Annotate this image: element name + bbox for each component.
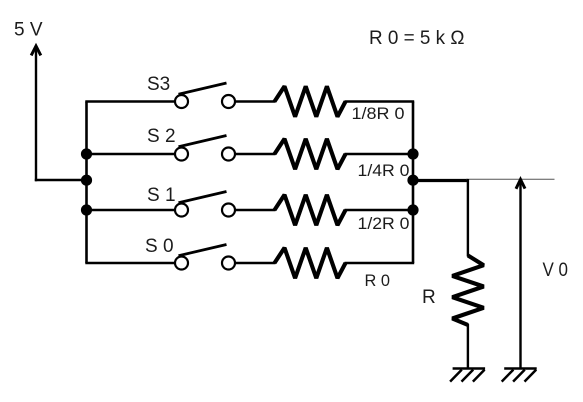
wire: left bus to switch S3 (85, 100, 175, 102)
switch S3 left contact (175, 95, 188, 108)
wire: 5V feed to left bus (35, 179, 87, 181)
wire: switch S3 to resistor (235, 100, 276, 102)
node: right bus junction feed row (407, 175, 418, 186)
wire: resistor R to ground (467, 324, 469, 368)
wire: resistor to right bus (S0 row) (345, 262, 415, 264)
ground (under R) (450, 369, 485, 382)
power arrow 5V (31, 46, 41, 181)
switch S0 right contact (222, 257, 235, 270)
switch S2 lever (179, 136, 227, 147)
svg-text:5 V: 5 V (14, 20, 43, 41)
wire: resistor to right bus (S1 row) (345, 209, 415, 211)
wire: left bus vertical (85, 102, 88, 264)
wire: left bus to switch S1 (85, 209, 175, 211)
wire: switch S1 to resistor (235, 209, 276, 211)
node: left bus junction feed row (81, 175, 92, 186)
switch S0 lever (179, 245, 227, 256)
switch S3 right contact (222, 95, 235, 108)
resistor R0 (275, 248, 346, 278)
svg-text:S 0: S 0 (145, 236, 174, 257)
svg-text:V 0: V 0 (543, 260, 569, 281)
wire: resistor to right bus (S2 row) (345, 153, 415, 155)
wire: switch S0 to resistor (235, 262, 276, 264)
ground (under V0 arrow) (502, 369, 537, 382)
V0 measurement arrow (516, 179, 525, 367)
wire: thin output line to V0 (466, 178, 554, 180)
wire: switch S2 to resistor (235, 153, 276, 155)
svg-text:1/8R 0: 1/8R 0 (352, 104, 405, 123)
svg-text:R 0: R 0 (365, 271, 391, 290)
node: left bus junction S1 row (81, 204, 92, 215)
resistor R3 (1/8 R0) (275, 86, 346, 116)
switch S2 left contact (175, 148, 188, 161)
wire: left bus to switch S0 (85, 262, 175, 264)
svg-text:1/2R 0: 1/2R 0 (358, 214, 410, 233)
node: right bus junction S1 row (407, 204, 418, 215)
svg-text:1/4R 0: 1/4R 0 (358, 161, 410, 180)
svg-text:R 0 = 5 k Ω: R 0 = 5 k Ω (369, 28, 465, 49)
switch S3 lever (179, 83, 227, 94)
svg-text:S 1: S 1 (147, 185, 176, 206)
switch S1 lever (179, 192, 227, 203)
wire: output node to R branch (thick) (413, 179, 468, 182)
node: left bus junction S2 row (81, 148, 92, 159)
svg-text:R: R (422, 287, 436, 308)
svg-text:S3: S3 (147, 74, 170, 95)
resistor R2 (1/4 R0) (275, 139, 346, 169)
wire: resistor to right bus (S3 row) (345, 100, 415, 102)
switch S1 left contact (175, 204, 188, 217)
svg-text:S 2: S 2 (147, 126, 176, 147)
switch S2 right contact (222, 148, 235, 161)
switch S0 left contact (175, 257, 188, 270)
wire: left bus to switch S2 (85, 153, 175, 155)
node: right bus junction S2 row (407, 148, 418, 159)
wire: branch down to resistor R (467, 179, 469, 257)
resistor R1 (1/2 R0) (275, 195, 346, 225)
resistor R (452, 256, 483, 326)
switch S1 right contact (222, 204, 235, 217)
wire: right bus vertical (412, 102, 415, 264)
